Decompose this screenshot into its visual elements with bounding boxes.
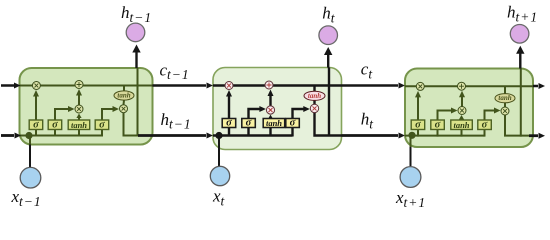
arrowhead h into cell 2 xyxy=(207,133,214,139)
arrowhead into input multiply, cell 2 xyxy=(259,106,266,112)
wire: hidden state output vertical, cell 1 xyxy=(137,68,139,137)
arrowhead into output multiply, cell 2 xyxy=(303,106,310,112)
wire: new hidden state to bottom, cell 3 xyxy=(505,115,533,136)
arrowhead into h node 3 xyxy=(516,46,524,54)
output gate sigma of cell 2 xyxy=(286,118,300,129)
arrowhead c input into cell 1 xyxy=(14,83,21,89)
node: x/h junction dot of cell 3 xyxy=(408,132,415,139)
wire: branch to gate 1 of cell 1 xyxy=(35,129,37,137)
node: x/h junction dot of cell 2 xyxy=(215,132,222,139)
arrowhead into input multiply, cell 1 xyxy=(68,106,75,112)
node x_t-1 input circle xyxy=(20,167,41,188)
wire: tanh output into output multiply, cell 1 xyxy=(123,100,126,105)
wire: cell state down into tanh, cell 2 xyxy=(313,86,315,92)
node h_t-1 output circle xyxy=(126,23,145,42)
arrowhead into input multiply from tanh, cell 3 xyxy=(459,115,464,120)
wire: branch to gate 3 of cell 2 xyxy=(269,127,271,137)
svg-text:tanh: tanh xyxy=(266,118,282,128)
wire: cell-state line c through cell 3 xyxy=(405,85,533,87)
wire: input h/x bus of cell 2 xyxy=(213,134,293,136)
tanh ellipse of cell 3 xyxy=(495,94,515,103)
node h_t+1 output circle xyxy=(510,25,529,44)
svg-text:σ: σ xyxy=(246,118,252,129)
wire: tanh output into output multiply, cell 3 xyxy=(504,103,506,107)
pointwise add of cell 2 xyxy=(265,81,273,89)
wire: h between cell 2 and 3 xyxy=(342,134,399,137)
wire: forget gate output up to multiply, cell 1 xyxy=(35,96,37,122)
forget gate sigma of cell 3 xyxy=(411,119,425,130)
svg-text:σ: σ xyxy=(33,119,39,130)
tanh ellipse of cell 1 xyxy=(114,91,134,100)
wire: h up to output node, cell 3 xyxy=(519,51,521,69)
wire: cell state down into tanh, cell 1 xyxy=(123,86,125,91)
input gate sigma of cell 1 xyxy=(48,119,62,130)
pointwise multiply (input) of cell 2 xyxy=(266,106,274,114)
output gate sigma of cell 1 xyxy=(95,119,109,130)
arrowhead c into cell 2 xyxy=(207,83,214,89)
arrowhead into h node 1 xyxy=(132,45,140,53)
wire: x input inside cell 3 xyxy=(410,137,412,147)
svg-text:σ: σ xyxy=(482,119,488,130)
wire: c between cell 2 and 3 xyxy=(342,84,399,87)
wire: input gate output to multiply, cell 3 xyxy=(438,111,454,122)
svg-text:tanh: tanh xyxy=(71,120,87,130)
wire: output gate to output multiply, cell 1 xyxy=(102,109,115,121)
wire: input h/x bus of cell 1 xyxy=(20,135,103,137)
wire: x input up into cell 2 xyxy=(218,137,220,167)
forget gate sigma of cell 1 xyxy=(29,119,43,130)
arrowhead c output xyxy=(539,83,546,89)
svg-text:σ: σ xyxy=(99,119,105,130)
wire: candidate tanh output up, cell 3 xyxy=(461,119,463,122)
wire: branch to gate 2 of cell 3 xyxy=(437,129,439,137)
wire: branch to gate 2 of cell 1 xyxy=(54,129,56,137)
svg-text:tanh: tanh xyxy=(308,92,321,100)
wire: forget gate output up to multiply, cell 3 xyxy=(417,96,419,121)
wire: candidate tanh output up, cell 1 xyxy=(78,117,80,121)
wire: x input up into cell 3 xyxy=(410,147,412,166)
arrowhead into input multiply, cell 3 xyxy=(451,108,458,114)
wire: new hidden state to bottom, cell 1 xyxy=(124,113,153,136)
arrowhead into output multiply, cell 1 xyxy=(113,106,120,112)
wire: c output right xyxy=(533,85,538,88)
arrowhead into add op, cell 3 xyxy=(459,91,465,98)
arrowhead into multiply op, cell 2 xyxy=(226,90,232,97)
pointwise add of cell 1 xyxy=(75,81,83,89)
wire: tanh output into output multiply, cell 2 xyxy=(313,100,315,104)
svg-text:σ: σ xyxy=(226,118,232,129)
wire: input h/x bus of cell 3 xyxy=(405,135,485,137)
arrowhead into input multiply from tanh, cell 2 xyxy=(268,115,273,120)
wire: cell state down into tanh, cell 3 xyxy=(504,86,506,93)
wire: c input from left xyxy=(1,84,14,87)
arrowhead into input multiply from tanh, cell 1 xyxy=(76,114,81,119)
arrowhead into h node 2 xyxy=(324,47,332,55)
wire: h input from left xyxy=(1,134,14,137)
pointwise multiply (output) of cell 3 xyxy=(501,107,509,115)
LSTM cell 2 body xyxy=(213,68,342,150)
wire: hidden state output vertical, cell 3 xyxy=(520,69,522,137)
wire: new hidden state to bottom, cell 2 xyxy=(315,113,342,136)
pointwise multiply (output) of cell 1 xyxy=(120,105,128,113)
wire: multiply result up to add op, cell 2 xyxy=(269,95,271,106)
input gate sigma of cell 3 xyxy=(431,119,445,130)
svg-text:tanh: tanh xyxy=(498,94,511,102)
wire: branch to gate 2 of cell 2 xyxy=(247,127,249,137)
candidate tanh box of cell 3 xyxy=(451,120,473,130)
svg-text:σ: σ xyxy=(435,119,441,130)
pointwise add of cell 3 xyxy=(458,82,466,90)
pointwise multiply (input) of cell 3 xyxy=(458,107,466,115)
arrowhead h input into cell 1 xyxy=(15,133,22,139)
svg-text:tanh: tanh xyxy=(117,92,130,100)
wire: branch to gate 3 of cell 1 xyxy=(78,129,80,137)
wire: hidden state output vertical, cell 2 xyxy=(328,68,330,137)
wire: cell-state line c through cell 1 xyxy=(20,85,153,87)
wire: multiply result up to add op, cell 1 xyxy=(78,95,80,106)
wire: input gate output to multiply, cell 1 xyxy=(55,109,70,121)
wire: branch to gate 1 of cell 2 xyxy=(228,127,230,137)
arrowhead h into cell 3 xyxy=(399,133,406,139)
pointwise multiply (input) of cell 1 xyxy=(75,105,83,113)
wire: multiply result up to add op, cell 3 xyxy=(461,96,463,106)
node x_t input circle xyxy=(210,166,229,185)
wire: x input up into cell 1 xyxy=(29,145,31,168)
arrowhead c into cell 3 xyxy=(399,83,406,89)
svg-text:σ: σ xyxy=(290,118,296,129)
LSTM cell 3 body xyxy=(405,69,533,148)
arrowhead into output multiply, cell 3 xyxy=(494,108,501,114)
LSTM cell 1 body xyxy=(20,68,153,145)
wire: branch to gate 3 of cell 3 xyxy=(461,129,463,137)
wire: h output right xyxy=(529,134,538,137)
wire: c between cell 1 and 2 xyxy=(153,84,207,87)
svg-text:σ: σ xyxy=(52,119,58,130)
tanh ellipse of cell 2 xyxy=(304,91,325,100)
arrowhead into add op, cell 2 xyxy=(268,90,274,97)
svg-text:σ: σ xyxy=(415,119,421,130)
forget gate sigma of cell 2 xyxy=(222,118,236,129)
wire: branch to gate 4 of cell 3 xyxy=(484,129,486,137)
wire: candidate tanh output up, cell 2 xyxy=(269,118,271,119)
wire: output gate to output multiply, cell 2 xyxy=(293,109,306,120)
pointwise multiply (output) of cell 2 xyxy=(310,104,318,112)
node x_t+1 input circle xyxy=(400,167,421,188)
node: x/h junction dot of cell 1 xyxy=(25,132,32,139)
candidate tanh box of cell 1 xyxy=(68,120,90,130)
wire: h up to output node, cell 1 xyxy=(135,50,137,68)
wire: h up to output node, cell 2 xyxy=(327,52,329,68)
input gate sigma of cell 2 xyxy=(242,118,256,129)
svg-text:tanh: tanh xyxy=(453,120,469,130)
candidate tanh box of cell 2 xyxy=(263,118,285,128)
wire: cell-state line c through cell 2 xyxy=(213,84,342,86)
wire: branch to gate 4 of cell 1 xyxy=(101,129,103,137)
wire: branch to gate 1 of cell 3 xyxy=(417,129,419,137)
arrowhead h output xyxy=(539,133,546,139)
arrowhead into multiply op, cell 1 xyxy=(33,90,39,97)
node h_t output circle xyxy=(319,26,338,45)
arrowhead into add op, cell 1 xyxy=(76,89,82,96)
wire: forget gate output up to multiply, cell 2 xyxy=(228,96,230,120)
arrowhead into multiply op, cell 3 xyxy=(415,91,421,98)
pointwise multiply (forget) of cell 3 xyxy=(416,82,424,90)
pointwise multiply (forget) of cell 2 xyxy=(225,82,233,90)
pointwise multiply (forget) of cell 1 xyxy=(32,82,40,90)
wire: h between cell 1 and 2 xyxy=(138,134,206,137)
wire: input gate output to multiply, cell 2 xyxy=(249,109,262,120)
wire: x input inside cell 1 xyxy=(29,137,31,145)
wire: branch to gate 4 of cell 2 xyxy=(291,127,293,137)
wire: output gate to output multiply, cell 3 xyxy=(485,111,497,122)
output gate sigma of cell 3 xyxy=(478,119,492,130)
